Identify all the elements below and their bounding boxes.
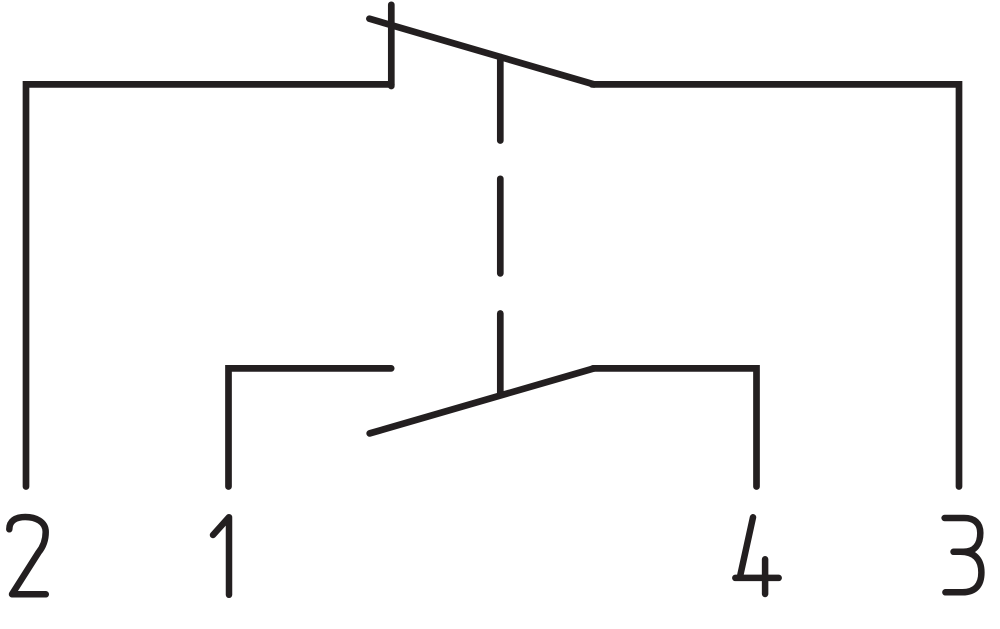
- mechanical linkage dashed segment 2 (middle dash): [497, 179, 504, 274]
- fixed contact post (top switch): [388, 5, 395, 86]
- label terminal 2: [9, 517, 46, 594]
- wire terminal 2 lead (left L-shaped wire): [26, 84, 391, 486]
- wire terminal 3 lead (right L-shaped wire): [592, 84, 959, 486]
- label terminal 3: [945, 518, 982, 592]
- label terminal 4: [735, 517, 778, 594]
- mechanical linkage dashed segment 3 (to bottom blade): [497, 314, 504, 395]
- switch blade, bottom contact (normally open): [370, 368, 594, 433]
- wire terminal 4 lead (bottom-right L-shaped wire): [593, 368, 757, 486]
- label terminal 1: [213, 517, 229, 595]
- switch blade, top contact (normally closed): [369, 19, 594, 85]
- wire terminal 1 lead (bottom-left L-shaped wire): [229, 368, 392, 486]
- mechanical linkage dashed segment 1 (from top blade): [497, 57, 504, 141]
